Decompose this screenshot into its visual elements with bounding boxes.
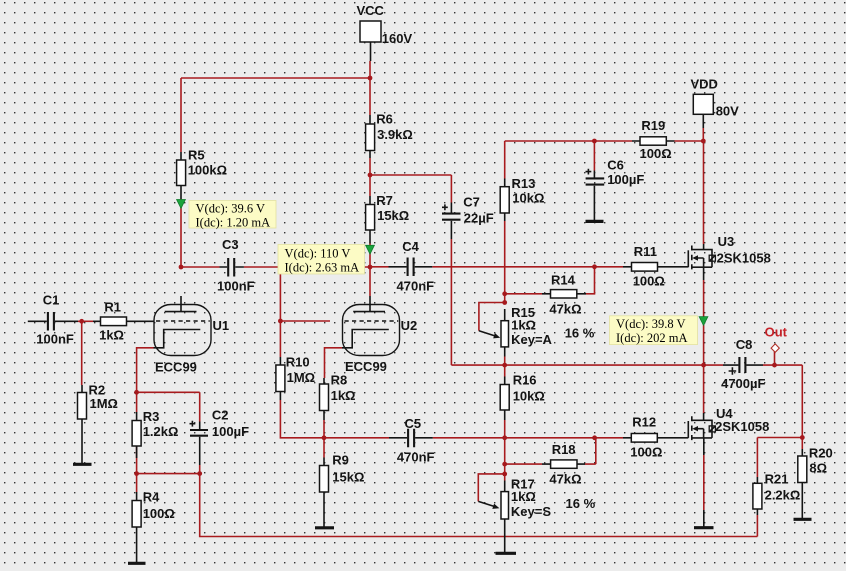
node R18 left <box>502 462 507 467</box>
wire VCC rail top <box>181 77 370 79</box>
mosfet U4 <box>688 406 769 455</box>
resistor R7 <box>366 193 410 243</box>
node R15 bottom rail <box>502 363 507 368</box>
svg-text:R14: R14 <box>551 272 576 287</box>
triode U1 <box>154 296 230 375</box>
svg-text:1kΩ: 1kΩ <box>99 328 124 343</box>
wire R3 top <box>136 392 138 412</box>
svg-text:R21: R21 <box>765 472 789 487</box>
svg-text:1.2kΩ: 1.2kΩ <box>143 424 179 439</box>
svg-text:VDD: VDD <box>691 77 718 92</box>
node U1 cathode <box>134 390 139 395</box>
wire cathode node to C2 <box>137 392 200 421</box>
wire R13 top riser <box>504 141 506 179</box>
node R3R4 <box>134 471 139 476</box>
svg-text:Out: Out <box>765 325 788 340</box>
wire R6R7 node to C7 <box>370 174 451 176</box>
node R14 left <box>502 291 507 296</box>
svg-text:R11: R11 <box>634 244 657 259</box>
wire C3 right to U2 grid node <box>244 266 370 268</box>
wire VCC2 rail <box>505 140 632 142</box>
svg-text:VCC: VCC <box>357 3 385 18</box>
wire R15 bottom <box>504 357 506 366</box>
wire U1 cathode run <box>137 348 154 393</box>
wire R7 bottom <box>369 244 371 268</box>
potentiometer R15 <box>479 305 595 357</box>
resistor R19 <box>632 118 675 161</box>
svg-text:Key=S: Key=S <box>511 504 551 519</box>
probe arrow U3 source <box>699 317 708 326</box>
wire R17 wiper loop <box>478 474 504 502</box>
svg-text:1kΩ: 1kΩ <box>511 318 536 333</box>
svg-text:C7: C7 <box>463 194 480 209</box>
svg-text:100nF: 100nF <box>217 278 255 293</box>
node R17 wiper <box>502 472 507 477</box>
svg-text:1kΩ: 1kΩ <box>331 388 356 403</box>
probe box V110 <box>278 245 365 275</box>
node R15 wiper <box>502 300 507 305</box>
node VCC tee <box>368 76 373 81</box>
resistor R10 <box>276 355 315 401</box>
node R12 left <box>592 435 597 440</box>
svg-text:U1: U1 <box>213 318 230 333</box>
wire U2 grid lead <box>280 320 330 322</box>
node R6R7 tee <box>368 173 373 178</box>
wire R13 bottom <box>504 221 506 303</box>
resistor R4 <box>132 489 175 562</box>
node U2 grid <box>278 319 283 324</box>
svg-text:160V: 160V <box>382 31 413 46</box>
svg-text:R16: R16 <box>513 373 537 388</box>
svg-text:4700µF: 4700µF <box>721 376 765 391</box>
wire R19 right <box>675 140 704 142</box>
wire R17 top lead <box>504 474 506 481</box>
mosfet U3 <box>688 234 771 280</box>
node U2 anode <box>368 265 373 270</box>
node output totem <box>701 363 706 368</box>
wire R5 top <box>180 78 182 152</box>
wire output rail <box>451 364 723 366</box>
ground U4 <box>694 510 714 528</box>
svg-text:R4: R4 <box>143 489 160 504</box>
wire R14 right riser <box>586 267 595 294</box>
svg-text:R5: R5 <box>188 148 205 163</box>
capacitor C6 <box>586 157 645 220</box>
svg-text:C3: C3 <box>222 237 239 252</box>
svg-text:3.9kΩ: 3.9kΩ <box>377 127 413 142</box>
node R8R9 <box>322 435 327 440</box>
probe arrow R7 <box>366 245 375 254</box>
svg-text:16 %: 16 % <box>566 496 596 511</box>
capacitor C8 <box>721 337 765 391</box>
svg-text:C8: C8 <box>736 337 753 352</box>
svg-text:1MΩ: 1MΩ <box>90 396 118 411</box>
svg-text:R9: R9 <box>332 453 349 468</box>
node C1R1R2 <box>79 319 84 324</box>
svg-text:470nF: 470nF <box>397 450 435 465</box>
node VDD tee <box>701 139 706 144</box>
svg-text:15kΩ: 15kΩ <box>377 208 409 223</box>
svg-text:47kΩ: 47kΩ <box>549 472 581 487</box>
wire R16 node down to R17 <box>504 438 506 474</box>
svg-text:80V: 80V <box>716 104 739 119</box>
capacitor C1 <box>28 292 78 346</box>
svg-text:100µF: 100µF <box>607 172 644 187</box>
capacitor C3 <box>217 237 255 293</box>
ground R2 <box>73 463 92 466</box>
svg-text:R8: R8 <box>331 373 348 388</box>
wire U3 source <box>703 280 705 365</box>
wire R16 top <box>504 365 506 376</box>
svg-text:ECC99: ECC99 <box>345 359 387 374</box>
svg-text:C1: C1 <box>43 292 60 307</box>
svg-text:R18: R18 <box>552 442 576 457</box>
svg-text:100nF: 100nF <box>36 331 74 346</box>
wire C1 right to node <box>78 320 93 322</box>
node Out <box>765 325 788 353</box>
svg-text:1MΩ: 1MΩ <box>287 370 315 385</box>
wire R8 bottom <box>323 420 325 438</box>
wire U2 anode <box>369 267 371 296</box>
svg-text:R10: R10 <box>286 355 310 370</box>
svg-text:R19: R19 <box>641 118 665 133</box>
ground R17 <box>496 552 517 555</box>
wire VDD pin <box>702 128 704 141</box>
svg-text:C6: C6 <box>607 157 624 172</box>
wire R6 bottom node <box>369 158 371 196</box>
svg-text:100Ω: 100Ω <box>143 506 175 521</box>
wire R15 wiper loop <box>479 303 505 331</box>
svg-text:U2: U2 <box>401 318 418 333</box>
svg-text:R6: R6 <box>376 111 393 126</box>
wire R10 top <box>279 321 281 357</box>
wire R12 left <box>595 437 623 439</box>
wire C7 top <box>450 175 452 203</box>
power VCC <box>357 3 413 61</box>
resistor R11 <box>623 244 688 288</box>
svg-text:I(dc): 202 mA: I(dc): 202 mA <box>616 331 688 345</box>
wire Out stem <box>774 351 776 365</box>
svg-text:16 %: 16 % <box>565 326 595 341</box>
svg-text:1kΩ: 1kΩ <box>511 489 536 504</box>
svg-text:470nF: 470nF <box>397 278 435 293</box>
svg-text:R13: R13 <box>512 176 536 191</box>
svg-text:2.2kΩ: 2.2kΩ <box>765 488 801 503</box>
svg-text:I(dc): 2.63 mA: I(dc): 2.63 mA <box>285 261 360 275</box>
wire R21 top lead <box>756 438 758 478</box>
wire bottom feedback rail <box>200 474 758 537</box>
probe box V39.6 <box>189 201 276 230</box>
wire R21 top link <box>757 437 802 439</box>
wire R21 bottom <box>756 515 758 537</box>
wire U3 drain <box>703 141 705 244</box>
svg-text:Key=A: Key=A <box>511 332 552 347</box>
svg-text:R20: R20 <box>809 445 833 460</box>
resistor R13 <box>500 176 544 221</box>
svg-text:I(dc): 1.20 mA: I(dc): 1.20 mA <box>196 216 271 230</box>
node U3 gate line <box>592 264 597 269</box>
wire R3 bottom <box>136 446 138 474</box>
svg-text:100Ω: 100Ω <box>640 146 672 161</box>
wire R9 top <box>323 438 325 458</box>
wire R10 bottom run <box>280 400 389 438</box>
resistor R14 <box>542 272 586 316</box>
svg-text:10kΩ: 10kΩ <box>512 191 544 206</box>
resistor R12 <box>623 415 688 460</box>
ground C6 <box>586 220 604 223</box>
ground R20 <box>794 518 812 521</box>
node R16 bottom <box>502 435 507 440</box>
svg-text:V(dc): 110 V: V(dc): 110 V <box>285 247 351 261</box>
wire R14 left <box>505 293 542 295</box>
resistor R20 <box>798 445 833 518</box>
capacitor C2 <box>190 407 250 465</box>
resistor R8 <box>320 373 356 420</box>
wire R4 top <box>136 474 138 492</box>
wire U4 source <box>703 455 705 510</box>
svg-text:10kΩ: 10kΩ <box>513 388 545 403</box>
node R19 left <box>592 139 597 144</box>
triode U2 <box>342 296 417 374</box>
resistor R18 <box>542 442 585 487</box>
wire C4 right run <box>432 266 594 268</box>
resistor R9 <box>320 453 365 527</box>
capacitor C5 <box>389 416 435 465</box>
svg-text:C4: C4 <box>402 239 419 254</box>
wire node to R11 <box>595 266 624 268</box>
wire U2 grid riser <box>279 267 281 321</box>
potentiometer R17 <box>478 476 595 552</box>
wire R5 bottom to node <box>180 199 182 267</box>
wire Out node down <box>801 365 803 449</box>
wire node to C4 <box>370 266 389 268</box>
svg-text:ECC99: ECC99 <box>155 360 197 375</box>
svg-text:100µF: 100µF <box>212 424 249 439</box>
node U1 anode <box>179 265 184 270</box>
svg-text:C5: C5 <box>405 416 422 431</box>
svg-text:22µF: 22µF <box>464 210 494 225</box>
svg-text:100kΩ: 100kΩ <box>188 163 227 178</box>
resistor R6 <box>366 111 413 158</box>
wire R3R4 node to C2 bottom <box>137 473 200 475</box>
wire U2 cathode run <box>325 348 343 378</box>
resistor R1 <box>93 299 154 342</box>
resistor R5 <box>177 148 227 200</box>
svg-text:15kΩ: 15kΩ <box>332 470 364 485</box>
wire R18 left <box>505 463 542 465</box>
svg-text:R7: R7 <box>376 193 393 208</box>
node C8 out <box>772 363 777 368</box>
wire R18 right riser <box>585 438 596 464</box>
probe box V39.8 <box>610 316 698 345</box>
node C2 bottom <box>197 471 202 476</box>
node R21 link <box>800 435 805 440</box>
svg-text:47kΩ: 47kΩ <box>549 302 581 317</box>
svg-text:V(dc): 39.6 V: V(dc): 39.6 V <box>196 202 266 216</box>
svg-text:R3: R3 <box>143 409 160 424</box>
capacitor C4 <box>389 239 435 293</box>
svg-text:R12: R12 <box>632 415 656 430</box>
svg-text:2SK1058: 2SK1058 <box>717 251 771 266</box>
svg-text:100Ω: 100Ω <box>633 273 665 288</box>
wire R2 top <box>81 321 83 385</box>
wire C7 bottom long <box>450 239 452 365</box>
probe arrow R5 <box>177 200 186 209</box>
wire C5 right run <box>433 437 595 439</box>
resistor R16 <box>500 373 545 420</box>
wire R16 bottom <box>504 420 506 438</box>
svg-text:V(dc): 39.8 V: V(dc): 39.8 V <box>616 317 686 331</box>
svg-text:100Ω: 100Ω <box>630 444 662 459</box>
svg-text:C2: C2 <box>212 407 229 422</box>
capacitor C7 <box>442 194 494 239</box>
wire VCC pin to R6 <box>369 61 371 115</box>
svg-text:U3: U3 <box>718 234 735 249</box>
resistor R3 <box>132 409 178 458</box>
svg-text:8Ω: 8Ω <box>809 461 827 476</box>
ground R4 <box>128 562 146 565</box>
power VDD <box>691 77 740 128</box>
resistor R21 <box>753 472 800 515</box>
svg-text:2SK1058: 2SK1058 <box>715 419 769 434</box>
wire C2 bottom <box>199 465 201 474</box>
wire C6 top <box>593 141 595 171</box>
wire U4 drain <box>703 365 705 413</box>
resistor R2 <box>78 383 118 464</box>
ground R9 <box>315 526 334 529</box>
wire C8 right to Out node <box>763 364 802 366</box>
svg-text:R1: R1 <box>104 299 121 314</box>
wire node to C3 <box>181 266 220 268</box>
